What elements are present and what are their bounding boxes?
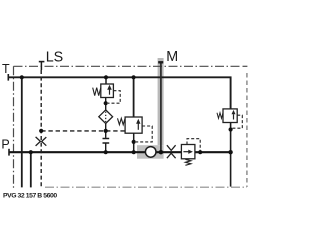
svg-text:M: M	[166, 49, 178, 65]
svg-text:P: P	[1, 137, 9, 151]
svg-text:T: T	[2, 62, 10, 76]
svg-text:LS: LS	[46, 50, 64, 66]
svg-text:PVG 32 157 B 5600: PVG 32 157 B 5600	[3, 193, 57, 200]
